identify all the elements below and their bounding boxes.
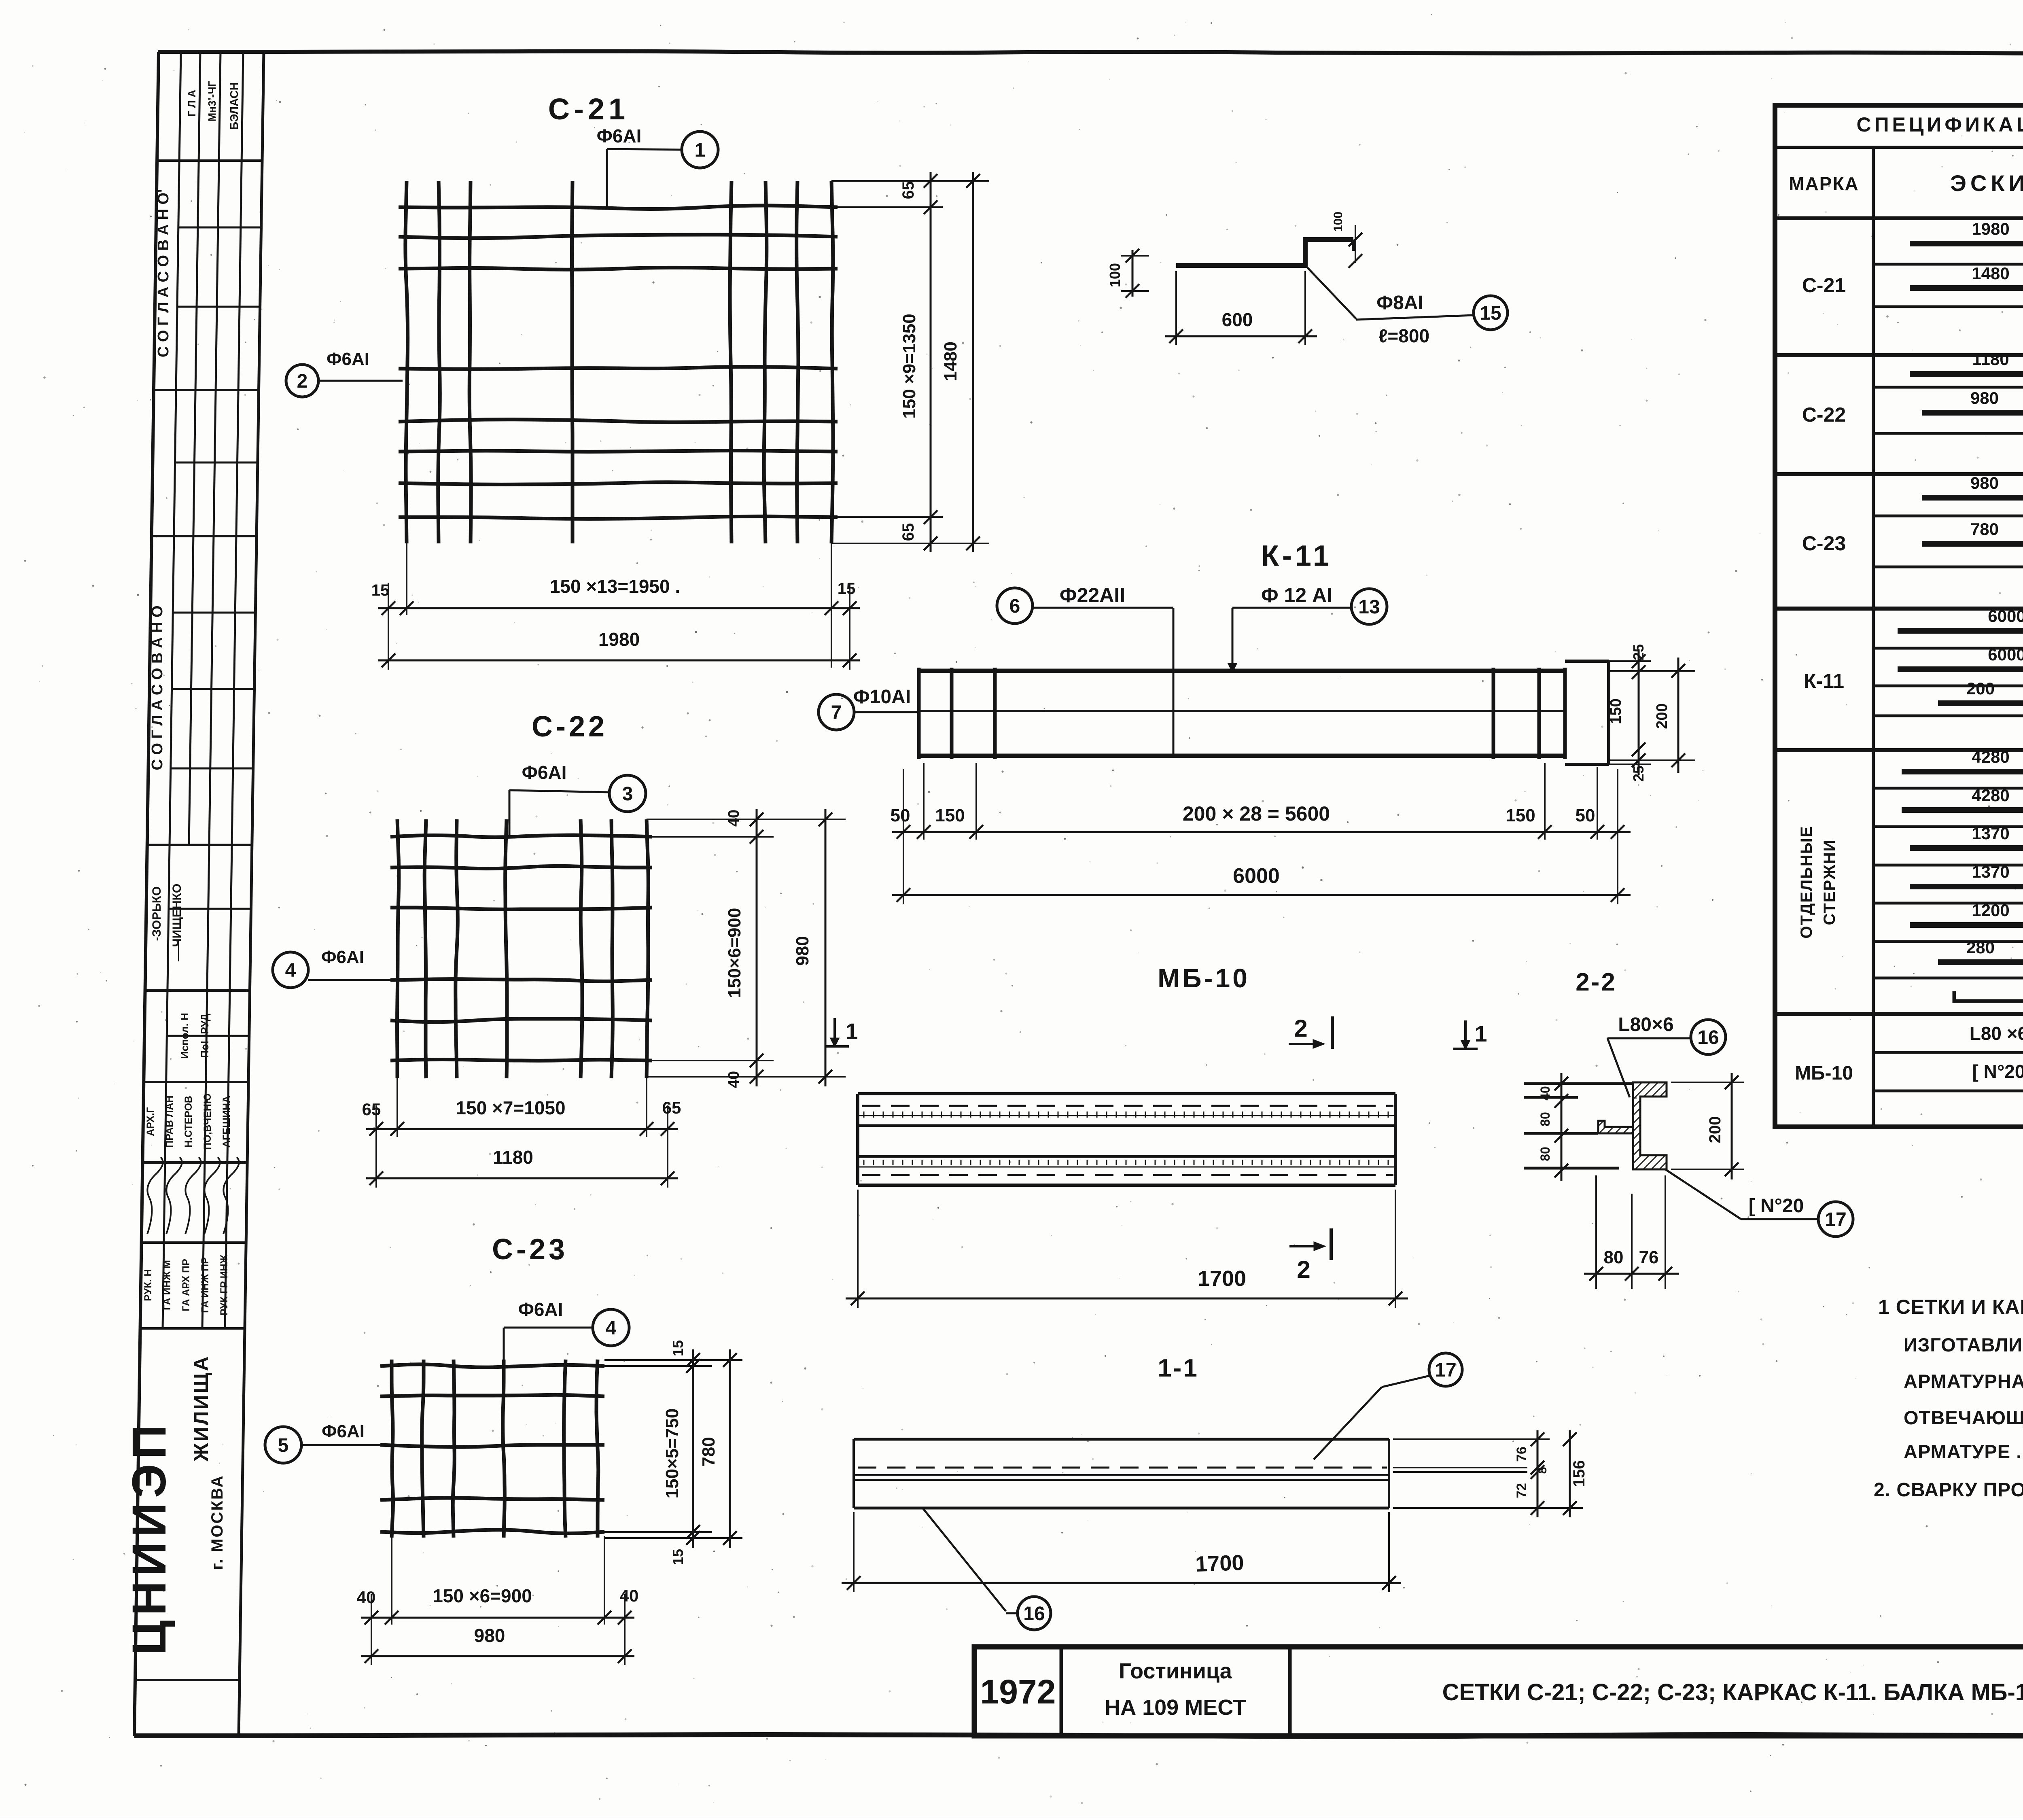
svg-text:2: 2 bbox=[1294, 1015, 1307, 1042]
svg-text:600: 600 bbox=[1222, 309, 1253, 330]
svg-text:АРХ.Г: АРХ.Г bbox=[145, 1107, 156, 1136]
svg-text:С-23: С-23 bbox=[492, 1233, 568, 1266]
svg-text:С-22: С-22 bbox=[1802, 403, 1846, 426]
svg-text:40: 40 bbox=[620, 1586, 639, 1605]
svg-text:150: 150 bbox=[935, 806, 965, 825]
svg-text:1: 1 bbox=[1474, 1021, 1487, 1046]
svg-text:Ф6АI: Ф6АI bbox=[518, 1299, 563, 1320]
svg-text:К-11: К-11 bbox=[1804, 670, 1844, 692]
svg-text:[ N°20: [ N°20 bbox=[1749, 1195, 1804, 1217]
svg-text:4280: 4280 bbox=[1972, 747, 2009, 766]
svg-text:АГЕШИНА: АГЕШИНА bbox=[221, 1096, 232, 1148]
svg-text:К-11: К-11 bbox=[1261, 540, 1332, 572]
svg-text:1: 1 bbox=[695, 140, 706, 161]
svg-text:6000: 6000 bbox=[1988, 645, 2023, 664]
svg-text:17: 17 bbox=[1435, 1360, 1456, 1381]
svg-text:Ф6АI: Ф6АI bbox=[322, 1421, 365, 1441]
svg-text:ЧИЩЕНКО: ЧИЩЕНКО bbox=[170, 884, 184, 947]
svg-text:L80×6: L80×6 bbox=[1618, 1014, 1673, 1035]
svg-text:40: 40 bbox=[1538, 1086, 1552, 1101]
svg-text:РУК ГР ИНЖ: РУК ГР ИНЖ bbox=[218, 1254, 230, 1315]
svg-text:Гостиница: Гостиница bbox=[1119, 1659, 1232, 1683]
svg-text:ГА АРХ ПР: ГА АРХ ПР bbox=[180, 1259, 192, 1311]
svg-text:1972: 1972 bbox=[980, 1673, 1056, 1711]
svg-text:Н.СТЕРОВ: Н.СТЕРОВ bbox=[183, 1096, 194, 1148]
svg-text:Г Л А: Г Л А bbox=[186, 90, 198, 117]
svg-text:150×6=900: 150×6=900 bbox=[725, 908, 744, 998]
svg-text:150×5=750: 150×5=750 bbox=[662, 1408, 682, 1499]
svg-text:15: 15 bbox=[670, 1549, 686, 1565]
svg-text:150 ×9=1350: 150 ×9=1350 bbox=[899, 314, 919, 418]
svg-text:80: 80 bbox=[1538, 1112, 1552, 1126]
svg-text:АРМАТУРЕ .: АРМАТУРЕ . bbox=[1904, 1441, 2022, 1462]
svg-text:4: 4 bbox=[606, 1317, 617, 1339]
svg-text:7: 7 bbox=[831, 702, 842, 723]
svg-text:ЭСКИЗ: ЭСКИЗ bbox=[1950, 170, 2023, 196]
svg-text:2: 2 bbox=[297, 371, 308, 392]
svg-text:50: 50 bbox=[1576, 806, 1595, 825]
svg-text:15: 15 bbox=[1480, 303, 1501, 324]
svg-text:80: 80 bbox=[1538, 1147, 1552, 1161]
svg-text:40: 40 bbox=[357, 1588, 376, 1607]
svg-text:8: 8 bbox=[1536, 1467, 1549, 1474]
svg-text:65: 65 bbox=[899, 523, 917, 541]
svg-text:ОТДЕЛЬНЫЕ: ОТДЕЛЬНЫЕ bbox=[1798, 825, 1815, 938]
svg-text:65: 65 bbox=[362, 1100, 381, 1119]
svg-text:280: 280 bbox=[1966, 938, 1995, 957]
svg-text:1180: 1180 bbox=[493, 1147, 533, 1168]
svg-text:г. МОСКВА: г. МОСКВА bbox=[208, 1474, 226, 1570]
svg-text:150 ×7=1050: 150 ×7=1050 bbox=[456, 1097, 565, 1118]
svg-text:ЖИЛИЩА: ЖИЛИЩА bbox=[190, 1355, 212, 1462]
svg-text:Ф6АI: Ф6АI bbox=[522, 762, 567, 783]
svg-text:АРМАТУРНАЯ СТАЛЬ ПО ГОСТАМ: АРМАТУРНАЯ СТАЛЬ ПО ГОСТАМ 5781-61 И 672… bbox=[1904, 1370, 2023, 1392]
svg-text:200: 200 bbox=[1966, 679, 1995, 698]
svg-text:Мн3’-ЧГ: Мн3’-ЧГ bbox=[206, 81, 218, 121]
svg-text:980: 980 bbox=[1970, 388, 1999, 407]
svg-text:76: 76 bbox=[1514, 1447, 1529, 1462]
svg-text:40: 40 bbox=[725, 810, 742, 827]
svg-text:1-1: 1-1 bbox=[1158, 1354, 1199, 1382]
svg-text:980: 980 bbox=[793, 936, 812, 965]
svg-text:4280: 4280 bbox=[1972, 786, 2009, 805]
svg-text:Ф 12 АI: Ф 12 АI bbox=[1261, 584, 1332, 607]
svg-text:780: 780 bbox=[699, 1437, 719, 1466]
svg-text:ГА ИНЖ М: ГА ИНЖ М bbox=[161, 1260, 173, 1310]
svg-text:1980: 1980 bbox=[1972, 219, 2009, 238]
svg-text:4: 4 bbox=[285, 960, 296, 981]
svg-text:3: 3 bbox=[622, 783, 633, 805]
svg-text:980: 980 bbox=[474, 1625, 505, 1646]
svg-text:72: 72 bbox=[1514, 1483, 1529, 1498]
svg-text:50: 50 bbox=[891, 806, 910, 825]
svg-text:1200: 1200 bbox=[1972, 901, 2009, 920]
svg-text:2. СВАРКУ ПРОИЗВОДИТЬ ЭЛЕКТР: 2. СВАРКУ ПРОИЗВОДИТЬ ЭЛЕКТРОДАМИ ТИПА Э… bbox=[1874, 1479, 2023, 1501]
svg-text:СЕТКИ С-21; С-22; С-23; КА: СЕТКИ С-21; С-22; С-23; КАРКАС К-11. БАЛ… bbox=[1442, 1679, 2023, 1705]
svg-text:МБ-10: МБ-10 bbox=[1158, 963, 1250, 993]
svg-text:Испол. Н: Испол. Н bbox=[178, 1013, 191, 1059]
svg-text:15: 15 bbox=[670, 1340, 686, 1356]
svg-text:СПЕЦИФИКАЦИЯ СТАЛИ НА 1 МАР: СПЕЦИФИКАЦИЯ СТАЛИ НА 1 МАРКУ bbox=[1856, 113, 2023, 136]
svg-text:100: 100 bbox=[1332, 212, 1345, 232]
svg-text:780: 780 bbox=[1970, 520, 1999, 539]
svg-text:200: 200 bbox=[1654, 703, 1671, 729]
svg-text:МАРКА: МАРКА bbox=[1789, 173, 1859, 194]
svg-text:1700: 1700 bbox=[1198, 1266, 1246, 1291]
svg-text:РУК. Н: РУК. Н bbox=[142, 1269, 154, 1301]
svg-text:С О Г Л А С О В А Н О': С О Г Л А С О В А Н О' bbox=[155, 189, 172, 357]
svg-text:17: 17 bbox=[1825, 1209, 1846, 1230]
svg-text:Ф10АI: Ф10АI bbox=[853, 686, 911, 708]
svg-text:1700: 1700 bbox=[1195, 1551, 1244, 1576]
svg-text:БЭЛАСН: БЭЛАСН bbox=[228, 82, 240, 130]
svg-text:1370: 1370 bbox=[1972, 862, 2009, 881]
svg-text:15: 15 bbox=[371, 581, 390, 599]
svg-text:100: 100 bbox=[1107, 263, 1123, 287]
svg-text:ℓ=800: ℓ=800 bbox=[1378, 325, 1429, 346]
svg-text:1: 1 bbox=[845, 1018, 858, 1044]
svg-text:40: 40 bbox=[725, 1071, 742, 1088]
svg-text:5: 5 bbox=[278, 1435, 289, 1456]
svg-text:[ N°20: [ N°20 bbox=[1972, 1061, 2023, 1082]
svg-text:980: 980 bbox=[1970, 473, 1999, 492]
svg-text:1980: 1980 bbox=[598, 629, 640, 650]
svg-text:Ф6АI: Ф6АI bbox=[327, 349, 369, 369]
svg-text:——: —— bbox=[172, 940, 184, 961]
svg-text:76: 76 bbox=[1639, 1247, 1659, 1267]
svg-text:Ф22АII: Ф22АII bbox=[1060, 584, 1125, 607]
svg-text:150: 150 bbox=[1607, 698, 1624, 724]
svg-text:1370: 1370 bbox=[1972, 824, 2009, 843]
svg-text:СТЕРЖНИ: СТЕРЖНИ bbox=[1821, 839, 1839, 925]
svg-text:ОТВЕЧАЮЩАЯ ТРЕБОВАНИЯМ , ПР: ОТВЕЧАЮЩАЯ ТРЕБОВАНИЯМ , ПРЕДЪЯВЛЯЕМЫМ К… bbox=[1904, 1407, 2023, 1428]
svg-text:ЦНИИЭП: ЦНИИЭП bbox=[123, 1420, 176, 1655]
svg-text:150 ×13=1950 .: 150 ×13=1950 . bbox=[550, 576, 680, 597]
svg-text:200 × 28 = 5600: 200 × 28 = 5600 bbox=[1183, 802, 1330, 825]
svg-text:156: 156 bbox=[1570, 1460, 1588, 1487]
svg-text:150: 150 bbox=[1506, 806, 1535, 825]
svg-text:1480: 1480 bbox=[1972, 264, 2009, 283]
svg-text:15: 15 bbox=[838, 580, 856, 598]
svg-text:1180: 1180 bbox=[1972, 350, 2009, 369]
svg-text:-ЗОРЬКО: -ЗОРЬКО bbox=[150, 887, 163, 941]
svg-text:16: 16 bbox=[1023, 1603, 1045, 1625]
svg-text:1480: 1480 bbox=[941, 342, 961, 381]
svg-text:По! -РУД: По! -РУД bbox=[199, 1014, 211, 1058]
svg-text:80: 80 bbox=[1604, 1247, 1624, 1267]
svg-text:6000: 6000 bbox=[1988, 607, 2023, 626]
svg-text:6: 6 bbox=[1009, 596, 1020, 617]
svg-text:16: 16 bbox=[1697, 1027, 1719, 1048]
svg-text:ПРАВ ЛАН: ПРАВ ЛАН bbox=[164, 1095, 175, 1148]
svg-text:ГА ИНЖ ПР: ГА ИНЖ ПР bbox=[199, 1257, 211, 1313]
svg-text:НА 109 МЕСТ: НА 109 МЕСТ bbox=[1105, 1695, 1246, 1720]
svg-text:65: 65 bbox=[662, 1098, 681, 1117]
svg-text:1 СЕТКИ И КАРКАСЫ - СВАРНЫ: 1 СЕТКИ И КАРКАСЫ - СВАРНЫЕ , bbox=[1878, 1296, 2023, 1318]
svg-text:Ф8АI: Ф8АI bbox=[1376, 292, 1423, 314]
svg-text:МБ-10: МБ-10 bbox=[1795, 1063, 1853, 1084]
svg-text:150 ×6=900: 150 ×6=900 bbox=[433, 1585, 532, 1606]
svg-text:200: 200 bbox=[1706, 1116, 1724, 1143]
svg-text:Ф6АI: Ф6АI bbox=[597, 125, 642, 146]
svg-text:ПО,ВЧЕНЮ: ПО,ВЧЕНЮ bbox=[202, 1093, 213, 1150]
svg-text:С-21: С-21 bbox=[1802, 274, 1846, 297]
svg-text:L80 ×6: L80 ×6 bbox=[1970, 1023, 2023, 1044]
svg-text:2: 2 bbox=[1297, 1256, 1310, 1283]
svg-text:65: 65 bbox=[899, 181, 917, 199]
svg-text:6000: 6000 bbox=[1233, 864, 1280, 888]
svg-text:ИЗГОТАВЛИВАТЬ ПО УКАЗАНИЯМ: ИЗГОТАВЛИВАТЬ ПО УКАЗАНИЯМ СН и П II- В1… bbox=[1904, 1334, 2023, 1355]
svg-text:25: 25 bbox=[1630, 644, 1647, 660]
svg-text:Ф6АI: Ф6АI bbox=[321, 947, 364, 967]
svg-text:С О Г Л А С О В А Н О: С О Г Л А С О В А Н О bbox=[149, 605, 166, 770]
svg-text:С-21: С-21 bbox=[548, 92, 629, 126]
svg-text:13: 13 bbox=[1358, 596, 1380, 618]
svg-text:2-2: 2-2 bbox=[1576, 968, 1617, 996]
svg-text:С-22: С-22 bbox=[532, 711, 608, 743]
svg-text:25: 25 bbox=[1630, 766, 1647, 782]
svg-text:С-23: С-23 bbox=[1802, 532, 1846, 555]
